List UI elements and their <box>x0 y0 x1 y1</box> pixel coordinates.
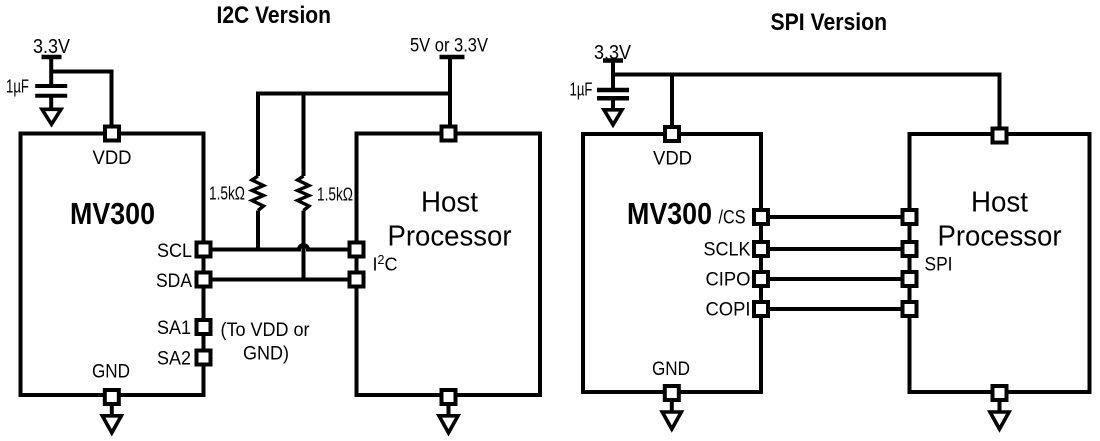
title SPI Version <box>771 9 888 36</box>
svg-text:GND: GND <box>652 359 690 380</box>
label VDD (SPI) <box>653 149 692 170</box>
svg-text:MV300: MV300 <box>70 196 155 231</box>
pin SA1 <box>197 320 211 334</box>
power tap 3.3V bar (SPI) <box>603 58 623 63</box>
pin GND (MV300 I2C) <box>105 390 119 404</box>
wire branch to VDD (SPI) <box>670 75 674 129</box>
wire 3.3V rail to host (SPI) <box>613 75 1000 129</box>
label GND (SPI MV300) <box>652 359 690 380</box>
svg-text:GND: GND <box>92 362 130 383</box>
svg-text:5V or 3.3V: 5V or 3.3V <box>410 36 488 57</box>
label SDA <box>156 271 192 292</box>
pin host GND (SPI) <box>993 386 1007 400</box>
wire GND stub (MV300 SPI) <box>670 400 674 411</box>
pin SCLK (MV300) <box>754 242 768 256</box>
wire capacitor to ground (SPI) <box>611 98 615 110</box>
pin /CS (MV300) <box>754 210 768 224</box>
wire 3.3V branch to VDD <box>51 72 111 129</box>
wire SCLK net <box>768 247 903 251</box>
pin SDA <box>197 273 211 287</box>
pin COPI (MV300) <box>754 302 768 316</box>
svg-text:SCLK: SCLK <box>704 240 751 261</box>
host processor box (I2C) <box>357 134 541 396</box>
svg-text:/CS: /CS <box>719 208 746 229</box>
label I2C (superscript) <box>373 253 398 275</box>
wire host GND stub (SPI) <box>998 400 1002 411</box>
ground (MV300 SPI) <box>662 412 681 429</box>
wire 3.3V down to capacitor (SPI) <box>611 61 615 89</box>
wire pull-up rail <box>256 92 450 96</box>
pin CIPO (MV300) <box>754 272 768 286</box>
capacitor C1 1uF plates <box>35 86 67 96</box>
ground (below C1) <box>42 109 61 124</box>
svg-text:SPI: SPI <box>925 255 953 276</box>
label 1.5kOhm (R2) <box>317 185 353 205</box>
label 1uF (C1) <box>6 77 29 97</box>
label MV300 (I2C) <box>70 196 155 231</box>
capacitor C2 1uF plates (SPI) <box>597 90 629 98</box>
svg-text:I2C Version: I2C Version <box>217 2 332 29</box>
svg-text:Processor: Processor <box>388 221 512 253</box>
pin host VDD (SPI) <box>993 129 1007 143</box>
label VDD (I2C) <box>93 148 132 169</box>
power tap 5V bar <box>440 55 465 60</box>
label Host (SPI) <box>971 187 1028 219</box>
pin GND (MV300 SPI) <box>665 386 679 400</box>
pin host VDD (I2C) <box>442 127 456 141</box>
pin host CIPO <box>903 272 917 286</box>
pin host SCLK <box>903 242 917 256</box>
svg-text:1.5kΩ: 1.5kΩ <box>209 184 245 204</box>
pin SCL <box>197 243 211 257</box>
pin SA2 <box>197 351 211 365</box>
wire 5V down to host pin <box>448 57 452 128</box>
svg-text:GND): GND) <box>243 344 289 365</box>
label SPI <box>925 255 953 276</box>
pin host GND (I2C) <box>442 390 456 404</box>
note (To VDD or GND) <box>221 320 311 365</box>
power tap 3.3V bar (I2C) <box>42 55 62 60</box>
svg-text:I2C: I2C <box>373 253 398 275</box>
svg-text:3.3V: 3.3V <box>33 36 71 58</box>
net 3.3V label (I2C) <box>33 36 71 58</box>
pin VDD (MV300 I2C) <box>105 127 119 141</box>
resistor R1 1.5k (SCL pull-up) <box>252 94 264 250</box>
ground (MV300 I2C) <box>102 416 121 433</box>
svg-text:SDA: SDA <box>156 271 192 292</box>
label Processor (SPI) <box>938 221 1062 253</box>
wire SCL with hop over R2 wire <box>211 245 350 249</box>
wire CIPO net <box>768 277 903 281</box>
svg-text:Host: Host <box>971 187 1028 219</box>
svg-text:MV300: MV300 <box>627 196 712 231</box>
svg-text:VDD: VDD <box>653 149 692 170</box>
svg-text:Processor: Processor <box>938 221 1062 253</box>
label CIPO <box>706 270 751 291</box>
svg-text:SCL: SCL <box>157 241 192 262</box>
svg-text:1.5kΩ: 1.5kΩ <box>317 185 353 205</box>
net 3.3V label (SPI) <box>594 42 632 64</box>
wire 3.3V down to capacitor <box>49 57 53 86</box>
pin host SDA <box>350 273 364 287</box>
label SA1 <box>157 318 191 339</box>
resistor R2 1.5k (SDA pull-up) <box>298 94 310 280</box>
svg-text:VDD: VDD <box>93 148 132 169</box>
label Host (I2C) <box>421 187 478 219</box>
ground (below C2) <box>604 110 622 125</box>
svg-text:(To VDD or: (To VDD or <box>221 320 311 341</box>
label SCLK <box>704 240 751 261</box>
wire host GND stub (I2C) <box>447 404 451 415</box>
wire capacitor to ground <box>49 96 53 110</box>
pin host /CS <box>903 210 917 224</box>
wire GND pin stub (MV300 I2C) <box>110 404 114 415</box>
pin host COPI <box>903 302 917 316</box>
label GND (I2C MV300) <box>92 362 130 383</box>
chip U2 MV300 box (SPI) <box>583 134 761 392</box>
label MV300 (SPI) <box>627 196 712 231</box>
pin host SCL <box>350 243 364 257</box>
svg-text:CIPO: CIPO <box>706 270 751 291</box>
label Processor (I2C) <box>388 221 512 253</box>
host processor box (SPI) <box>910 134 1090 392</box>
wire SDA <box>211 278 350 282</box>
label /CS <box>719 208 746 229</box>
svg-text:Host: Host <box>421 187 478 219</box>
wire /CS net <box>768 215 903 219</box>
wire COPI net <box>768 307 903 311</box>
label SCL <box>157 241 192 262</box>
svg-text:SA2: SA2 <box>157 349 191 370</box>
svg-text:1µF: 1µF <box>570 80 593 100</box>
svg-text:SA1: SA1 <box>157 318 191 339</box>
ground (host SPI) <box>990 412 1009 429</box>
label SA2 <box>157 349 191 370</box>
svg-text:COPI: COPI <box>706 300 751 321</box>
label 1.5kOhm (R1) <box>209 184 245 204</box>
label 1uF (C2) <box>570 80 593 100</box>
title I2C Version <box>217 2 332 29</box>
pin VDD (MV300 SPI) <box>665 127 679 141</box>
ground (host I2C) <box>439 416 458 433</box>
net 5V or 3.3V label <box>410 36 488 57</box>
svg-text:SPI Version: SPI Version <box>771 9 888 36</box>
chip U1 MV300 box (I2C) <box>21 134 204 396</box>
label COPI <box>706 300 751 321</box>
svg-text:1µF: 1µF <box>6 77 29 97</box>
